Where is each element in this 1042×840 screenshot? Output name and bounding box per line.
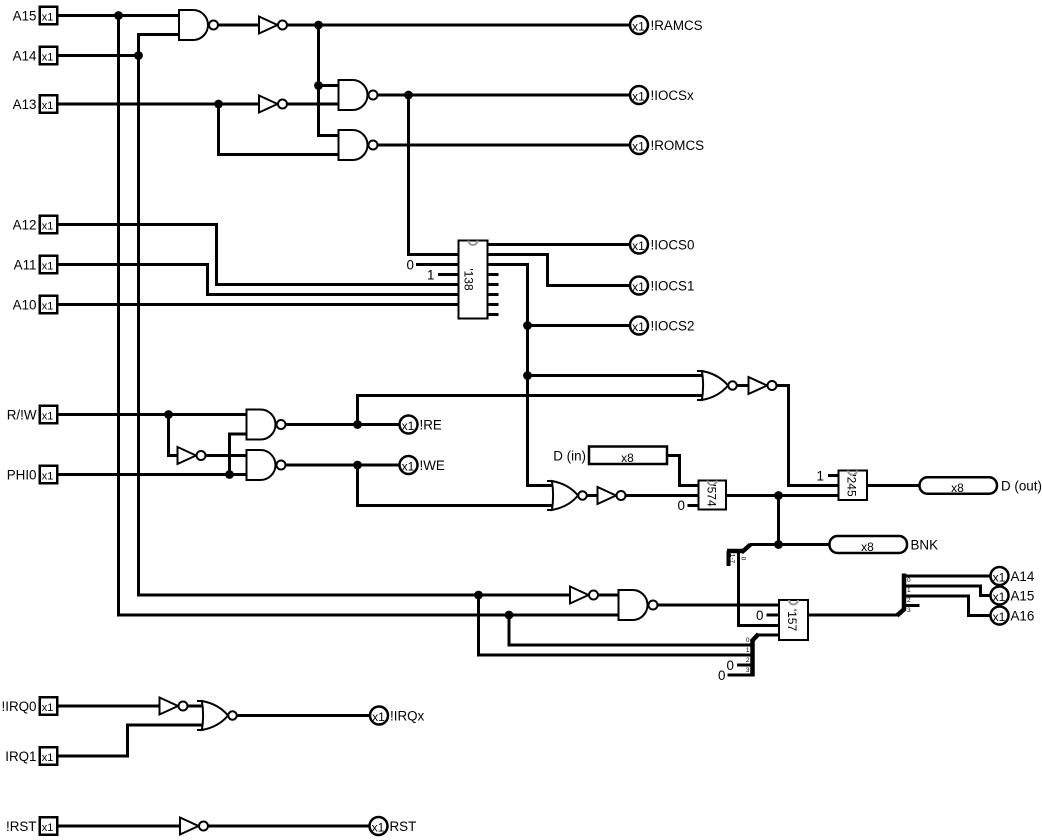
wire !WE branch down to NOR U7 input B xyxy=(358,465,554,506)
splitter S2 bus diagonal xyxy=(752,634,759,642)
svg-text:1: 1 xyxy=(746,647,750,654)
wire '138 Y7 stub xyxy=(487,313,499,316)
IC U574 notch xyxy=(708,481,717,486)
wire inverter U6 output to NAND U5 input A xyxy=(206,454,248,457)
wire inverter U7b output to '574 clock xyxy=(626,494,700,497)
wire '138 Y5 stub xyxy=(487,293,499,296)
svg-text:1: 1 xyxy=(427,268,434,283)
svg-text:x1: x1 xyxy=(42,411,54,423)
junction node row615 xyxy=(505,611,514,620)
output pin !IOCS1 xyxy=(630,277,648,295)
wire row-615 branch down to splitter S2 bit0 xyxy=(509,615,751,645)
wire A13 branch down to NAND U3 input B xyxy=(219,104,341,155)
wire NOR U7 output to inverter U7b xyxy=(587,494,599,497)
wire A14 branch up to NAND U1 input B xyxy=(139,35,181,56)
wire splitter S2 bus to '157 side input xyxy=(757,633,781,636)
wire A14 pin to junction xyxy=(57,54,139,57)
wire inverter U13 output to RST xyxy=(208,824,370,827)
wire '138 Y2 down to !IOCS2 and NOR U7 input A xyxy=(487,265,554,486)
wire '157 output bus to splitter S3 xyxy=(808,613,898,616)
wire NAND U1 output to inverter U1b xyxy=(218,23,261,26)
IC U574 '574 register body xyxy=(699,481,727,510)
wire D(in) pill to '574 data input xyxy=(667,456,700,486)
junction node U2 input xyxy=(314,81,323,90)
svg-text:A14: A14 xyxy=(1011,569,1035,584)
wire junction to NAND U2 input A xyxy=(319,84,341,87)
svg-text:x1: x1 xyxy=(632,280,645,294)
junction node A13 branch xyxy=(214,100,223,109)
wire junction to OR U10 input A xyxy=(528,374,705,377)
bus pin D (out) xyxy=(920,477,998,494)
splitter S1 bus diagonal xyxy=(742,545,751,553)
svg-text:!IRQ0: !IRQ0 xyxy=(2,699,37,714)
junction node '574 out xyxy=(774,491,783,500)
output pin !IOCS0 xyxy=(630,236,648,254)
svg-text:A13: A13 xyxy=(13,97,37,112)
wire junction to BNK pill xyxy=(750,543,830,546)
wire row-595 branch down to splitter S2 bit1 xyxy=(479,595,751,655)
splitter S1 spine xyxy=(727,549,743,554)
wire '574 output branch down to BNK junction xyxy=(777,496,780,545)
wire inverter U10b output down to '245 enable xyxy=(777,386,840,486)
junction node RAMCS xyxy=(314,21,323,30)
wire R/!W branch down to inverter U6 input xyxy=(169,415,179,456)
svg-text:A11: A11 xyxy=(14,258,37,273)
splitter S1 bits1-7 stub leg xyxy=(727,551,731,566)
svg-text:!IOCS2: !IOCS2 xyxy=(651,319,695,334)
NAND gate U2 (IOCSx) xyxy=(339,80,378,110)
junction node row595 xyxy=(474,591,483,600)
svg-text:x1: x1 xyxy=(42,471,54,483)
svg-text:!RE: !RE xyxy=(420,418,442,433)
wire '574 output to '245 A port xyxy=(726,494,840,497)
svg-text:x1: x1 xyxy=(42,221,54,233)
svg-text:!ROMCS: !ROMCS xyxy=(651,138,705,153)
svg-text:!IOCS1: !IOCS1 xyxy=(651,279,695,294)
svg-text:3: 3 xyxy=(907,607,911,614)
svg-text:RST: RST xyxy=(390,819,417,834)
output pin !IRQx xyxy=(370,707,388,725)
input pin R/!W xyxy=(40,406,58,424)
svg-text:x1: x1 xyxy=(42,52,54,64)
junction node A15 bus xyxy=(114,11,123,20)
splitter S3 spine xyxy=(902,574,907,610)
NAND gate U5 (WE) xyxy=(247,450,286,480)
input pin A13 xyxy=(40,95,58,113)
splitter S3 bus diagonal xyxy=(897,609,905,616)
svg-text:2: 2 xyxy=(907,597,911,604)
svg-text:0: 0 xyxy=(727,658,734,673)
output pin RST xyxy=(370,817,388,835)
wire constant 0 to '574 enable xyxy=(688,504,700,507)
wire splitter S3 bit0 to A14 output xyxy=(903,574,990,577)
wire NAND U5 output to !WE xyxy=(285,463,400,466)
input pin A11 xyxy=(40,256,58,274)
wire NAND U2 output branch down to '138 enable G1 xyxy=(409,95,460,255)
output pin A15 xyxy=(991,587,1009,605)
wire '138 Y6 stub xyxy=(487,303,499,306)
NOR gate U7 (clock) xyxy=(547,481,587,510)
inverter U7b (clock) xyxy=(598,487,626,504)
svg-text:x1: x1 xyxy=(993,590,1006,604)
svg-text:!WE: !WE xyxy=(420,458,445,473)
IC U245 notch xyxy=(848,471,857,476)
NOR gate U12 (IRQ) xyxy=(197,701,237,730)
wire constant 1 to '138 pin G2B xyxy=(438,273,460,276)
wire splitter S3 bit2 to A16 output xyxy=(903,596,990,616)
wire '138 Y1 to !IOCS1 xyxy=(487,255,630,286)
svg-text:x1: x1 xyxy=(402,460,415,474)
output pin !RE xyxy=(400,416,418,434)
inverter U10b xyxy=(749,377,777,394)
svg-text:0: 0 xyxy=(718,668,725,683)
svg-text:A15: A15 xyxy=(1011,589,1035,604)
junction node IOCSx xyxy=(404,91,413,100)
wire PHI0 pin to NAND U5 input B xyxy=(57,473,248,476)
wire !IRQ0 pin to inverter U11 input xyxy=(57,704,161,707)
svg-text:x1: x1 xyxy=(42,822,54,834)
svg-text:0: 0 xyxy=(746,637,750,644)
svg-text:A16: A16 xyxy=(1011,609,1035,624)
wire A10 pin to '138 pin C xyxy=(57,303,460,306)
svg-text:IRQ1: IRQ1 xyxy=(5,749,36,764)
junction node RE xyxy=(353,420,362,429)
svg-text:!RAMCS: !RAMCS xyxy=(651,18,703,33)
IC U245 '245 buffer body xyxy=(839,471,868,501)
output pin !WE xyxy=(400,456,418,474)
output pin A14 xyxy=(991,567,1009,585)
svg-text:!RST: !RST xyxy=(6,819,37,834)
input pin A14 xyxy=(40,47,58,65)
svg-text:x1: x1 xyxy=(632,320,645,334)
svg-text:0: 0 xyxy=(678,498,685,513)
svg-text:!IOCS0: !IOCS0 xyxy=(651,238,695,253)
wire splitter S1 bit0 leg down to '157 select xyxy=(739,551,781,626)
input pin A15 xyxy=(40,7,58,25)
svg-text:2: 2 xyxy=(746,657,750,664)
NAND gate U4 (RE) xyxy=(247,410,286,440)
wire NAND U8 output to '157 input xyxy=(657,603,780,606)
output pin !ROMCS xyxy=(630,136,648,154)
inverter U1b xyxy=(259,17,287,34)
wire A15 vertical bus x=118.5 down to bottom row xyxy=(119,16,511,616)
svg-text:0: 0 xyxy=(407,258,414,273)
wire IRQ1 pin up to NOR U12 input B xyxy=(57,725,203,756)
wire PHI0 branch up to NAND U4 input B xyxy=(230,434,248,475)
svg-text:A10: A10 xyxy=(13,298,37,313)
wire constant 0 to '157 pin 2 xyxy=(767,613,781,616)
NAND gate U1 (A15.A14) xyxy=(179,10,218,40)
svg-text:D (in): D (in) xyxy=(553,449,586,464)
wire NAND U4 output to !RE xyxy=(285,423,400,426)
wire constant 0 to splitter S2 bit3 xyxy=(728,673,751,676)
wire A13 pin to inverter U2 input xyxy=(57,102,260,105)
svg-text:x1: x1 xyxy=(42,261,54,273)
svg-text:x1: x1 xyxy=(632,239,645,253)
output pin !IOCS2 xyxy=(630,317,648,335)
splitter S2 spine xyxy=(750,640,755,677)
svg-text:x1: x1 xyxy=(42,752,54,764)
svg-text:R/!W: R/!W xyxy=(7,408,37,423)
output pin !IOCSx xyxy=(630,86,648,104)
svg-text:BNK: BNK xyxy=(911,538,939,553)
NAND gate U3 (ROMCS) xyxy=(339,130,378,160)
svg-text:0: 0 xyxy=(740,557,747,561)
svg-text:0: 0 xyxy=(907,577,911,584)
svg-text:0: 0 xyxy=(756,608,763,623)
wire inverter U11 output to NOR U12 input A xyxy=(188,704,204,707)
svg-text:!IRQx: !IRQx xyxy=(390,709,425,724)
svg-text:1: 1 xyxy=(817,469,824,484)
wire '138 Y3 stub xyxy=(487,273,499,276)
svg-text:!IOCSx: !IOCSx xyxy=(651,88,694,103)
wire junction to !IOCS2 xyxy=(528,324,630,327)
wire '138 Y4 stub xyxy=(487,283,499,286)
wire A12 pin to '138 pin A xyxy=(57,225,460,285)
svg-text:D (out): D (out) xyxy=(1001,479,1042,494)
wire !RST pin to inverter U13 input xyxy=(57,824,181,827)
input pin A10 xyxy=(40,296,58,314)
wire A15 pin to NAND U1 input A xyxy=(57,14,180,17)
wire '138 Y0 to !IOCS0 xyxy=(487,243,630,246)
svg-text:x1: x1 xyxy=(993,610,1006,624)
svg-text:x8: x8 xyxy=(861,540,874,554)
output pin !RAMCS xyxy=(630,16,648,34)
wire vertical from !RAMCS node down to NAND U2/U3 inputs xyxy=(319,25,341,136)
wire NOR U12 output to !IRQx xyxy=(237,714,370,717)
inverter U9 (bank NAND input) xyxy=(570,587,598,604)
svg-text:'574: '574 xyxy=(705,484,719,507)
input pin IRQ1 xyxy=(40,747,58,765)
wire A11 pin to '138 pin B xyxy=(57,265,460,295)
wire splitter S3 bit1 to A15 output xyxy=(903,586,990,596)
bus pin BNK xyxy=(830,536,908,553)
IC U138 notch xyxy=(469,241,478,246)
svg-text:x1: x1 xyxy=(632,90,645,104)
wire OR U10 output to inverter U10b xyxy=(737,384,750,387)
junction node PHI0 branch xyxy=(225,470,234,479)
NAND gate U8 (bank) xyxy=(619,590,658,620)
wire constant 0 to splitter S2 bit2 xyxy=(737,663,751,666)
wire inverter U9 output to NAND U8 input A xyxy=(598,593,620,596)
wire constant 1 to '245 dir xyxy=(828,474,840,477)
wire splitter S3 bit3 stub xyxy=(903,604,920,607)
svg-text:'157: '157 xyxy=(785,609,799,632)
junction node A14 bus xyxy=(134,51,143,60)
svg-text:x1: x1 xyxy=(42,100,54,112)
wire A14 vertical bus x=138.5 down to row 595 xyxy=(139,56,481,596)
inverter U6 (R/W) xyxy=(178,447,206,464)
input pin PHI0 xyxy=(40,466,58,484)
wire inverter U2 output to NAND U2 input B xyxy=(287,102,340,105)
junction node R/!W branch xyxy=(164,410,173,419)
inverter U11 (IRQ0) xyxy=(160,698,188,715)
svg-text:x1: x1 xyxy=(372,821,385,835)
IC U157 '157 mux body xyxy=(779,600,808,640)
input pin A12 xyxy=(40,216,58,234)
svg-text:x1: x1 xyxy=(42,702,54,714)
wire !RE branch up to OR U10 input B xyxy=(358,396,705,425)
junction node WE xyxy=(353,461,362,470)
svg-text:A12: A12 xyxy=(13,218,37,233)
wire R/!W pin to NAND U4 input A xyxy=(57,413,248,416)
wire A14 row 595 to inverter U9 input xyxy=(479,593,571,596)
output pin A16 xyxy=(991,607,1009,625)
svg-text:A15: A15 xyxy=(13,9,37,24)
junction node OR input xyxy=(523,371,532,380)
svg-text:1-7: 1-7 xyxy=(729,554,736,564)
wire A15 bottom row to NAND U8 input B xyxy=(509,613,620,616)
IC U138 '138 decoder body xyxy=(459,241,488,319)
svg-text:'138: '138 xyxy=(462,268,476,291)
wire constant 0 to '138 pin G2A xyxy=(416,263,460,266)
svg-text:PHI0: PHI0 xyxy=(7,468,37,483)
input pin !RST xyxy=(40,817,58,835)
wire NAND U2 output to !IOCSx xyxy=(377,93,630,96)
svg-text:3: 3 xyxy=(746,667,750,674)
inverter U2b (A13) xyxy=(259,96,287,113)
IC U157 notch xyxy=(789,600,798,605)
bus pin D (in) xyxy=(589,447,667,465)
svg-text:x1: x1 xyxy=(632,20,645,34)
svg-text:x1: x1 xyxy=(402,419,415,433)
wire '245 B port to D(out) pill xyxy=(867,484,920,487)
junction node BNK xyxy=(774,540,783,549)
svg-text:A14: A14 xyxy=(13,49,37,64)
svg-text:'245: '245 xyxy=(845,474,859,497)
svg-text:1: 1 xyxy=(907,587,911,594)
inverter U13 (RST) xyxy=(180,818,208,835)
svg-text:x1: x1 xyxy=(372,710,385,724)
svg-text:x8: x8 xyxy=(621,451,634,465)
wire inverter U1b output to !RAMCS xyxy=(287,23,630,26)
input pin !IRQ0 xyxy=(40,697,58,715)
wire NAND U3 output to !ROMCS xyxy=(377,143,630,146)
svg-text:x1: x1 xyxy=(42,12,54,24)
NOR gate U10 (output enable) xyxy=(697,371,737,400)
svg-text:x1: x1 xyxy=(42,301,54,313)
svg-text:x8: x8 xyxy=(951,481,964,495)
junction node IOCS2 xyxy=(523,321,532,330)
svg-text:x1: x1 xyxy=(632,140,645,154)
svg-text:x1: x1 xyxy=(993,571,1006,585)
